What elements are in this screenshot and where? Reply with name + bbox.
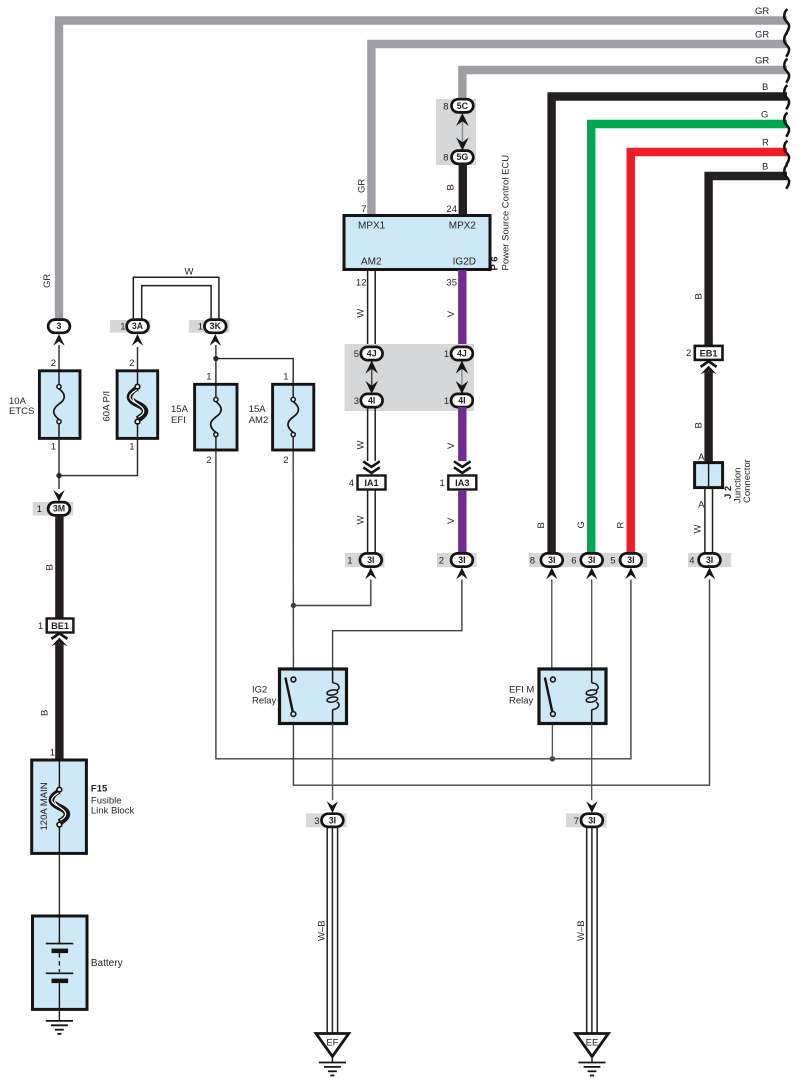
connector oval 3A: [127, 320, 149, 333]
node below fuses: [56, 473, 61, 478]
wire V segment 3: [458, 490, 466, 554]
svg-text:12: 12: [356, 278, 367, 289]
wire W from J2 to 4-3I: [705, 488, 713, 554]
svg-text:1: 1: [283, 372, 288, 383]
wire node to AM2 fuse: [216, 359, 293, 385]
svg-text:AM2: AM2: [249, 415, 269, 426]
wire B BE1 to F15: [55, 643, 63, 760]
svg-text:6: 6: [571, 556, 576, 567]
arrow up below EB1: [700, 366, 716, 375]
svg-text:W: W: [356, 441, 367, 450]
op ECU box P6: [344, 216, 490, 270]
svg-text:GR: GR: [357, 179, 368, 193]
svg-text:15A: 15A: [171, 404, 189, 415]
arrow down into 4I right: [456, 381, 469, 394]
svg-text:IG2D: IG2D: [453, 257, 476, 268]
wire B to connector EB1: [709, 176, 787, 348]
connector IA1: [358, 476, 386, 490]
svg-text:MPX1: MPX1: [358, 221, 386, 232]
svg-text:3I: 3I: [706, 555, 713, 565]
svg-text:4J: 4J: [457, 349, 467, 359]
svg-text:B: B: [40, 710, 51, 716]
connector oval 5G: [452, 151, 474, 164]
svg-text:R: R: [616, 522, 627, 529]
connector oval 3K: [204, 320, 226, 333]
wire B 3M to BE1: [55, 515, 63, 619]
junction connector J2: [695, 463, 723, 488]
node junction AM2/IG2: [291, 603, 296, 608]
link line 4J-4I right: [461, 360, 463, 396]
svg-text:IG2: IG2: [252, 685, 267, 696]
wire GR from ECU MPX1 pin 7: [371, 44, 787, 216]
connector oval 5-3I: [620, 553, 642, 566]
svg-text:BE1: BE1: [51, 621, 69, 631]
connector BE1: [47, 619, 74, 633]
svg-text:G: G: [576, 521, 587, 528]
svg-text:W: W: [693, 525, 704, 534]
svg-text:MPX2: MPX2: [449, 221, 477, 232]
fuse 10A ETCS box: [39, 371, 80, 439]
svg-text:1: 1: [444, 396, 449, 407]
connector oval 4J right: [451, 347, 473, 360]
squiggle continuation GR3: [784, 59, 789, 83]
svg-text:4: 4: [349, 478, 354, 489]
arrow up into 1-3I: [365, 568, 376, 580]
relay IG2 box: [280, 669, 347, 724]
svg-text:Power Source Control ECU: Power Source Control ECU: [501, 155, 512, 271]
svg-text:G: G: [761, 110, 768, 121]
svg-text:3I: 3I: [367, 555, 374, 565]
svg-text:W–B: W–B: [317, 920, 328, 941]
ground symbol EE: [578, 1063, 605, 1076]
svg-text:3I: 3I: [548, 555, 555, 565]
arrow down into 7-3I: [586, 801, 597, 813]
connector oval 7-3I: [581, 814, 603, 827]
wire W-B triple right: [587, 827, 597, 1034]
svg-text:B: B: [762, 82, 768, 93]
svg-text:2: 2: [129, 358, 134, 369]
fuse symbol EFI: [211, 397, 222, 436]
svg-text:EF: EF: [326, 1038, 338, 1049]
svg-text:GR: GR: [755, 30, 769, 41]
svg-text:3: 3: [314, 816, 319, 827]
svg-text:Connector: Connector: [742, 459, 753, 503]
wire B to connector 8-3I: [552, 97, 787, 554]
svg-text:B: B: [694, 422, 705, 428]
wire ETCS to node: [58, 438, 60, 489]
svg-text:3I: 3I: [458, 555, 465, 565]
svg-text:5: 5: [354, 349, 359, 360]
connector oval 4I right: [451, 394, 473, 407]
svg-text:EFI M: EFI M: [509, 685, 534, 696]
svg-text:Link Block: Link Block: [91, 806, 135, 817]
wire 8-3I down to EFI M switch: [551, 580, 553, 680]
connector IA3: [448, 476, 476, 490]
ground EE triangle: [576, 1034, 609, 1057]
relay IG2 switch: [285, 678, 292, 712]
wire W-B triple left: [327, 827, 337, 1034]
fuse 15A AM2 box: [273, 384, 314, 450]
arrow up into 4J left: [365, 361, 378, 374]
wire B EB1 to J2: [704, 371, 712, 463]
chevrons into IA3: [454, 461, 471, 467]
svg-text:7: 7: [361, 204, 366, 215]
gray band 2-3I: [437, 553, 477, 567]
wire GR main (battery feed): [59, 21, 787, 323]
connector block 5C-5G gray box: [436, 99, 476, 165]
wire R to connector 5-3I: [631, 152, 787, 553]
arrow up into 2-3I: [456, 568, 467, 580]
svg-text:GR: GR: [42, 274, 53, 288]
svg-text:1: 1: [37, 504, 42, 515]
svg-text:4I: 4I: [368, 396, 375, 406]
svg-text:3K: 3K: [210, 321, 222, 331]
link line 4J-4I left: [371, 360, 373, 396]
wire oval3 to ETCS fuse: [58, 345, 60, 371]
gray band 1-3M: [33, 502, 73, 516]
svg-text:1: 1: [198, 322, 203, 333]
fuse symbol F15: [52, 787, 67, 827]
svg-text:A: A: [698, 500, 705, 511]
svg-text:3A: 3A: [132, 321, 144, 331]
arrow up into 3A: [132, 334, 143, 346]
wire EFI M coil to 7-3I: [591, 724, 593, 801]
arrow down into 4I left: [365, 381, 378, 394]
svg-text:GR: GR: [755, 6, 769, 17]
svg-text:V: V: [446, 310, 457, 317]
svg-text:8: 8: [443, 153, 448, 164]
svg-text:2: 2: [51, 358, 56, 369]
svg-text:2: 2: [686, 348, 691, 359]
svg-text:AM2: AM2: [361, 257, 382, 268]
arrow down into 3-3I: [327, 801, 338, 813]
svg-text:5: 5: [610, 556, 615, 567]
svg-text:B: B: [536, 522, 547, 528]
wire W segment 3: [368, 490, 376, 554]
svg-text:Relay: Relay: [252, 696, 277, 707]
svg-text:F15: F15: [91, 784, 108, 795]
wire F15 to battery: [58, 853, 60, 916]
svg-text:2: 2: [439, 556, 444, 567]
svg-text:4: 4: [689, 556, 694, 567]
arrow up into oval 3: [53, 334, 64, 346]
svg-text:P 6: P 6: [490, 256, 501, 270]
relay EFI M switch: [545, 678, 552, 712]
squiggle continuation B7: [784, 165, 789, 189]
wire 6-3I down to EFI M coil: [591, 580, 593, 670]
arrow up below BE1: [51, 638, 67, 647]
ground symbol battery: [46, 1021, 73, 1034]
wire 1-3I down to junction: [293, 580, 370, 606]
wire V from IG2D pin35: [458, 270, 466, 347]
chevron below BE1: [51, 633, 67, 639]
fuse symbol AM2: [288, 397, 299, 436]
wire W from AM2 pin12 (double line): [368, 270, 376, 347]
svg-text:EE: EE: [586, 1038, 599, 1049]
svg-text:EFI: EFI: [171, 415, 186, 426]
wire 4-3I down to bus2: [293, 580, 709, 786]
gray band 3-3I: [306, 813, 347, 827]
svg-text:W: W: [356, 309, 367, 318]
gray band 8-6-5-3I: [529, 553, 647, 567]
svg-text:3M: 3M: [53, 504, 65, 514]
svg-text:Battery: Battery: [91, 958, 123, 969]
svg-text:60A P/I: 60A P/I: [102, 391, 113, 422]
svg-text:GR: GR: [755, 56, 769, 67]
wire 3K to EFI fuse: [215, 345, 217, 384]
svg-text:1: 1: [50, 748, 55, 759]
wire B from 5G to ECU pin 24: [459, 164, 467, 217]
fuse symbol 60A: [130, 384, 145, 424]
relay EFI M coil: [586, 669, 598, 724]
connector oval 1-3I: [360, 553, 382, 566]
svg-text:B: B: [762, 162, 768, 173]
svg-text:8: 8: [443, 101, 448, 112]
svg-text:4J: 4J: [367, 349, 377, 359]
svg-text:IA3: IA3: [455, 478, 469, 488]
wire V segment 2: [458, 407, 466, 461]
node 3K junction: [213, 356, 218, 361]
squiggle continuation B4: [784, 85, 789, 109]
fuse symbol ETCS: [54, 385, 65, 424]
ground symbol EF: [319, 1063, 346, 1076]
svg-text:EB1: EB1: [700, 348, 718, 358]
connector oval 4I left: [361, 394, 383, 407]
connector oval 6-3I: [581, 553, 603, 566]
connector EB1: [695, 346, 723, 360]
arrow up into 8-3I: [546, 568, 557, 580]
squiggle continuation GR2: [784, 33, 789, 57]
svg-text:5G: 5G: [457, 152, 469, 162]
wire G to connector 6-3I: [591, 124, 787, 553]
svg-text:B: B: [45, 564, 56, 570]
wire node to 60A fuse bottom: [59, 438, 138, 475]
ground EF triangle: [316, 1034, 349, 1057]
arrow up into 3K: [210, 334, 221, 346]
svg-text:1: 1: [444, 349, 449, 360]
svg-text:1: 1: [129, 442, 134, 453]
svg-text:1: 1: [347, 556, 352, 567]
wire 60A to 3A: [137, 347, 139, 371]
wire IG2 coil to 3-3I: [332, 724, 334, 801]
squiggle continuation R6: [784, 141, 789, 165]
svg-text:7: 7: [574, 816, 579, 827]
svg-text:120A MAIN: 120A MAIN: [39, 782, 50, 830]
svg-text:V: V: [446, 442, 457, 449]
svg-text:1: 1: [120, 322, 125, 333]
svg-text:W: W: [185, 267, 194, 278]
fusible link block F15: [32, 760, 87, 853]
svg-text:24: 24: [446, 204, 457, 215]
arrow up into 6-3I: [586, 568, 597, 580]
connector oval 3M: [48, 502, 70, 515]
battery box: [33, 916, 88, 1009]
svg-text:W: W: [356, 516, 367, 525]
svg-text:1: 1: [38, 621, 43, 632]
svg-text:1: 1: [51, 442, 56, 453]
battery internals: [58, 916, 60, 944]
relay IG2 coil: [327, 669, 339, 724]
connector oval 4-3I: [699, 553, 721, 566]
wire AM2 fuse to IG2 relay switch: [292, 450, 294, 679]
node EFI M switch bus: [550, 756, 555, 761]
wire 5-3I down to bus1: [216, 450, 631, 759]
wire W loop 3A-3K inner: [142, 286, 211, 320]
svg-text:3I: 3I: [329, 815, 336, 825]
gray band 7-3I: [566, 813, 607, 827]
svg-text:8: 8: [530, 556, 535, 567]
relay EFI M box: [539, 669, 606, 724]
svg-text:35: 35: [446, 278, 457, 289]
connector oval 4J left: [361, 347, 383, 360]
fuse 60A P/I box: [117, 371, 158, 439]
connector oval 3-3I: [322, 814, 344, 827]
arrow up into 5C: [456, 113, 469, 126]
svg-text:3I: 3I: [588, 815, 595, 825]
svg-text:B: B: [694, 293, 705, 299]
svg-text:B: B: [446, 184, 457, 190]
svg-text:IA1: IA1: [364, 478, 378, 488]
gray band 1-3I: [345, 553, 385, 567]
link line between 5C and 5G: [461, 112, 463, 152]
svg-text:Relay: Relay: [509, 696, 534, 707]
arrow up into 4J right: [456, 361, 469, 374]
svg-text:1: 1: [440, 478, 445, 489]
arrow up into 5-3I: [625, 568, 636, 580]
svg-text:3I: 3I: [627, 555, 634, 565]
gray band 1-3K: [189, 320, 230, 333]
connector oval 5C: [452, 99, 474, 112]
svg-text:3: 3: [354, 396, 359, 407]
connector oval 8-3I: [541, 553, 563, 566]
wire 2-3I down to IG2 coil: [333, 580, 462, 670]
wire W loop 3A-3K outer: [133, 277, 219, 320]
svg-text:5C: 5C: [457, 101, 469, 111]
svg-text:ETCS: ETCS: [9, 406, 34, 417]
connector oval 2-3I: [451, 553, 473, 566]
svg-text:15A: 15A: [249, 404, 267, 415]
connector block 4J-4I gray box: [345, 344, 475, 411]
arrow down into 5G: [456, 138, 469, 151]
svg-text:1: 1: [206, 372, 211, 383]
svg-text:R: R: [762, 138, 769, 149]
connector oval 3: [48, 320, 70, 333]
gray band 1-3A: [110, 320, 151, 333]
svg-text:4I: 4I: [458, 396, 465, 406]
chevrons into IA1: [363, 461, 380, 467]
svg-text:3I: 3I: [588, 555, 595, 565]
svg-text:W–B: W–B: [576, 920, 587, 941]
chevron below EB1: [701, 361, 717, 367]
svg-text:2: 2: [283, 455, 288, 466]
wire EFI M switch bottom to bus1: [551, 714, 553, 759]
wire W segment 2: [368, 407, 376, 461]
arrow up into 4-3I: [704, 568, 715, 580]
wire GR from connector 5C: [462, 70, 787, 100]
svg-text:2: 2: [206, 455, 211, 466]
squiggle continuation G5: [784, 113, 789, 137]
fuse 15A EFI box: [195, 384, 237, 450]
arrow down into 3M: [53, 490, 64, 502]
svg-text:V: V: [446, 517, 457, 524]
gray band 4-3I: [688, 553, 731, 567]
svg-text:3: 3: [57, 321, 62, 331]
squiggle continuation GR1: [784, 9, 789, 33]
